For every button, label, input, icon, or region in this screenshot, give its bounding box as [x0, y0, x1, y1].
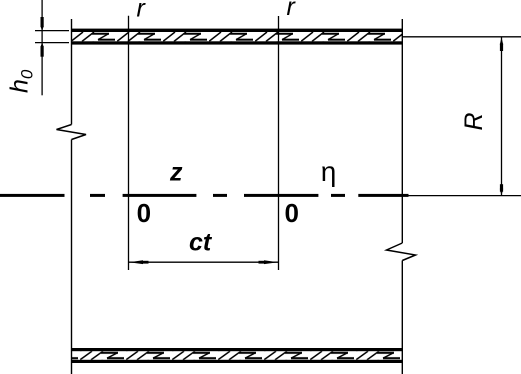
top wall inner line [72, 41, 403, 44]
left pipe edge upper segment [71, 19, 73, 125]
ct arrow right [259, 260, 279, 264]
h0 extension line lower [35, 42, 69, 44]
ct dimension line [129, 261, 279, 263]
h0 dimension line vertical [41, 0, 43, 95]
bottom wall outer line [72, 360, 403, 363]
h0 extension line upper [35, 30, 69, 32]
left pipe edge lower segment [71, 140, 73, 374]
section line r2 [278, 16, 280, 270]
svg-text:0: 0 [137, 198, 151, 228]
right pipe edge upper segment [401, 19, 403, 243]
section line r1 [128, 16, 130, 270]
ct arrow left [129, 260, 149, 264]
R extension line [403, 36, 521, 38]
right pipe edge lower segment [401, 261, 403, 374]
top wall outer line [72, 29, 403, 32]
svg-text:z: z [169, 159, 183, 187]
h0 arrow down [41, 17, 44, 31]
h0 arrow up [41, 43, 44, 57]
svg-text:η: η [321, 156, 337, 187]
svg-text:R: R [460, 112, 488, 130]
svg-text:0: 0 [285, 198, 299, 228]
R arrow up [500, 37, 503, 51]
bottom wall hatch fill [72, 351, 403, 360]
R arrow down [500, 184, 503, 196]
bottom wall inner line [72, 348, 403, 351]
axis centerline dashes [0, 194, 409, 197]
left pipe edge break zigzag [57, 125, 87, 140]
R dimension line [501, 37, 503, 196]
axis extension line right [409, 195, 521, 197]
svg-text:ct: ct [189, 229, 213, 257]
top wall hatch fill [72, 32, 403, 41]
right pipe edge break zigzag [387, 243, 416, 261]
